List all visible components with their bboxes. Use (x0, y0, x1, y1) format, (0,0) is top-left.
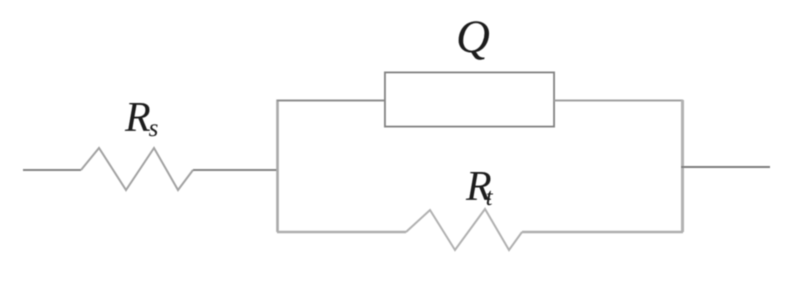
resistor Rs (81, 148, 193, 190)
resistor Rt (406, 209, 522, 250)
wire bottom branch right (522, 231, 683, 234)
node A left vertical branch wire (276, 100, 279, 233)
CPE box Q (385, 73, 554, 127)
svg-text:Q: Q (456, 11, 490, 63)
wire bottom branch left (277, 231, 406, 234)
wire input lead (23, 169, 81, 171)
wire top branch left (277, 100, 385, 102)
wire Rs to node A (193, 169, 277, 171)
wire output lead (681, 166, 770, 168)
node B right vertical branch wire (681, 100, 684, 232)
svg-text:Rt: Rt (465, 164, 494, 211)
svg-text:Rs: Rs (124, 95, 158, 142)
wire top branch right (554, 100, 683, 102)
